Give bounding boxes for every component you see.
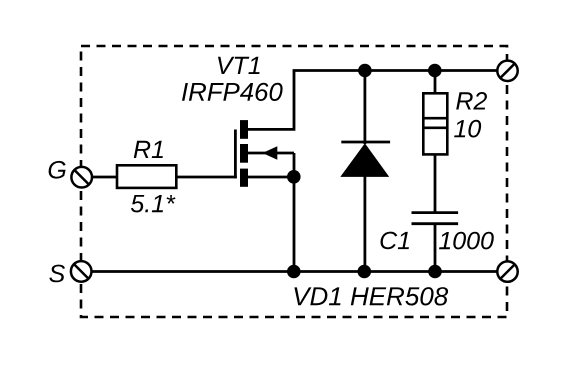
label 5.1* bbox=[131, 195, 176, 212]
internal line 2 bbox=[423, 127, 447, 130]
label 1000 bbox=[439, 232, 494, 250]
enclosure dashed border bbox=[81, 46, 507, 317]
cathode lead bbox=[363, 71, 366, 145]
label G bbox=[49, 161, 66, 179]
resistor R1 bbox=[117, 165, 176, 188]
label R1 bbox=[134, 141, 163, 158]
plate bottom bbox=[412, 222, 459, 225]
diode VD1 bbox=[340, 71, 390, 272]
lead bottom bbox=[434, 154, 437, 212]
wire G to R1 bbox=[92, 176, 118, 179]
source wire bbox=[248, 176, 294, 179]
capacitor C1 bbox=[412, 213, 459, 272]
terminal G bbox=[71, 167, 92, 188]
label IRFP460 bbox=[182, 83, 283, 101]
terminal S bbox=[71, 261, 92, 282]
terminal top-right bbox=[497, 61, 517, 81]
wire top rail bbox=[293, 69, 498, 72]
drain channel bar bbox=[240, 120, 248, 139]
plate top bbox=[412, 211, 459, 214]
node diode top bbox=[358, 64, 372, 78]
gate line bbox=[234, 130, 237, 179]
label VD1 HER508 bbox=[294, 287, 448, 305]
body bbox=[423, 93, 447, 154]
node diode bottom bbox=[358, 265, 372, 279]
node source junction bbox=[287, 170, 301, 184]
wire R1 to gate bbox=[176, 176, 237, 179]
body channel bar bbox=[240, 144, 248, 163]
lead top bbox=[434, 71, 437, 95]
terminal bottom-right bbox=[497, 261, 517, 281]
node R2 top bbox=[428, 64, 442, 78]
label S bbox=[49, 265, 65, 283]
cathode bar bbox=[341, 141, 390, 144]
anode lead bbox=[363, 176, 366, 272]
internal line 1 bbox=[423, 117, 447, 120]
node source bottom bbox=[287, 265, 301, 279]
resistor R2 bbox=[423, 71, 447, 213]
drain wire bbox=[248, 71, 294, 130]
source channel bar bbox=[240, 169, 248, 187]
label 10 bbox=[454, 120, 481, 138]
label VT1 bbox=[218, 57, 260, 74]
body wire bbox=[248, 152, 294, 155]
node C1 bottom bbox=[428, 265, 442, 279]
wire bottom rail bbox=[91, 270, 497, 273]
body arrow bbox=[263, 146, 278, 159]
transistor VT1 bbox=[235, 71, 294, 187]
diode triangle bbox=[340, 143, 389, 177]
label R2 bbox=[456, 92, 487, 110]
lead bottom bbox=[434, 224, 437, 272]
wire source/body vertical bbox=[293, 153, 296, 272]
label C1 bbox=[381, 232, 410, 250]
